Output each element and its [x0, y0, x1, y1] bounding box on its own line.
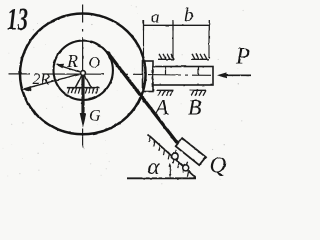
roller 1 [172, 153, 178, 159]
dimension tick right [208, 20, 210, 31]
radius arrow R [55, 64, 83, 73]
svg-text:2R: 2R [33, 71, 51, 88]
pivot support triangle [75, 73, 91, 88]
rope from inner drum to block [108, 53, 177, 142]
svg-text:R: R [66, 51, 78, 71]
upper guide A [158, 54, 175, 60]
extension line middle [172, 31, 174, 59]
pivot O [81, 71, 86, 76]
dimension tick left [143, 20, 145, 31]
lower guide A [157, 90, 174, 96]
roller stem 1 [175, 150, 176, 154]
guide edge ticks on rod [166, 67, 199, 76]
dimension tick middle [172, 20, 174, 31]
svg-text:Q: Q [210, 153, 227, 178]
extension line right [208, 31, 210, 59]
weight arrow G [80, 75, 87, 128]
svg-text:B: B [188, 95, 201, 120]
paper speckle [3, 5, 244, 184]
svg-text:G: G [89, 108, 101, 125]
svg-text:α: α [148, 154, 161, 179]
base line under incline [127, 177, 196, 179]
paper background [0, 0, 251, 187]
ground line under pivot [67, 87, 100, 89]
dimension line a b [143, 24, 210, 26]
lower guide B [190, 90, 207, 96]
brake shoe on drum [143, 61, 154, 92]
svg-text:O: O [89, 55, 101, 72]
svg-text:P: P [235, 44, 250, 69]
extension line left [143, 31, 145, 61]
inclined plane surface [148, 135, 196, 178]
roller stem 2 [186, 162, 187, 165]
radius arrow 2R [22, 73, 83, 91]
svg-text:a: a [151, 8, 160, 27]
ground hatching under pivot [68, 88, 98, 93]
block Q [176, 138, 206, 165]
pusher rod [153, 67, 213, 86]
small vertical double arrow at incline foot [169, 163, 172, 178]
force arrow P [217, 72, 251, 78]
svg-text:b: b [184, 5, 194, 26]
vertical centerline of drum [82, 5, 84, 148]
svg-text:13: 13 [7, 1, 28, 37]
rod centerline [148, 74, 211, 77]
upper guide B [191, 54, 209, 60]
roller 2 [183, 165, 189, 171]
horizontal centerline of drum [8, 73, 146, 76]
incline hatching [149, 137, 189, 177]
inner circle (R drum) [53, 41, 112, 100]
outer circle (2R drum) [20, 14, 146, 135]
